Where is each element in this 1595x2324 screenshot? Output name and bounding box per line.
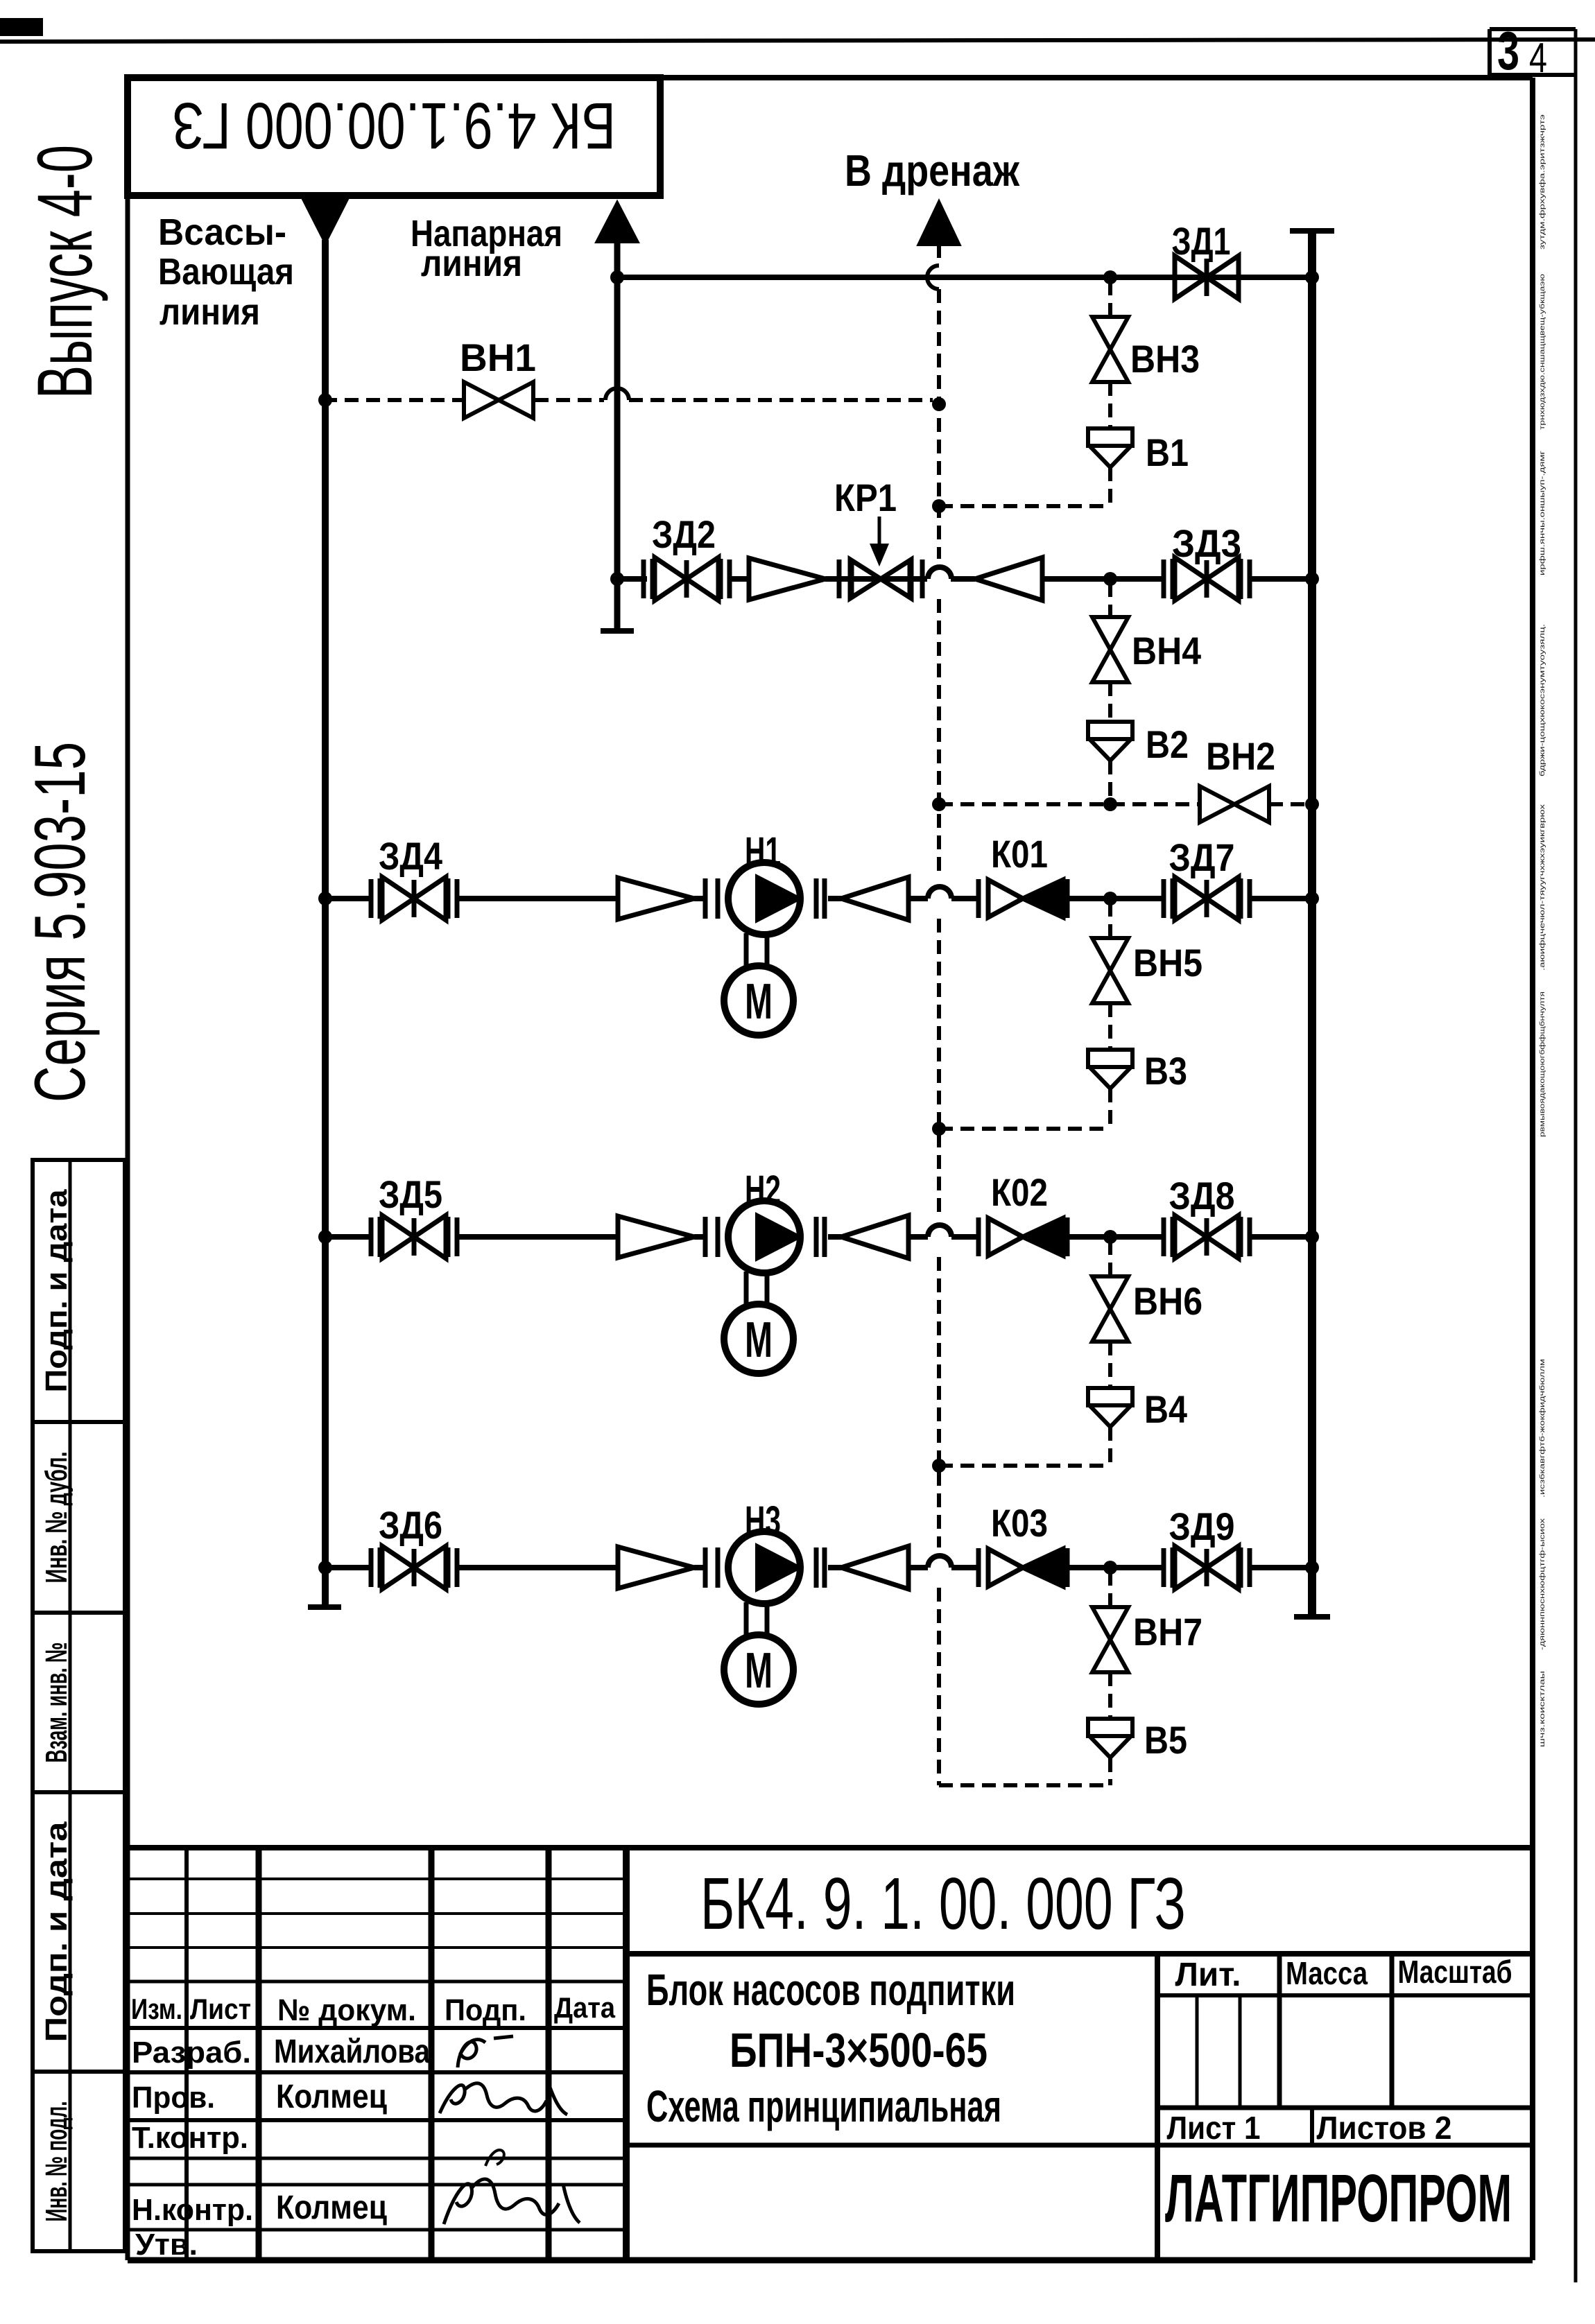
svg-text:В дренаж: В дренаж bbox=[845, 146, 1020, 196]
svg-text:ВН5: ВН5 bbox=[1133, 941, 1202, 985]
svg-text:ЗД7: ЗД7 bbox=[1169, 835, 1235, 879]
svg-text:Дата: Дата bbox=[554, 1991, 616, 2024]
svg-text:Н.контр.: Н.контр. bbox=[132, 2193, 253, 2227]
svg-text:Листов 2: Листов 2 bbox=[1317, 2110, 1452, 2146]
svg-text:Т.контр.: Т.контр. bbox=[132, 2121, 248, 2155]
svg-text:линия: линия bbox=[159, 291, 260, 333]
svg-text:М: М bbox=[745, 1312, 773, 1368]
svg-text:ВН7: ВН7 bbox=[1133, 1610, 1202, 1654]
svg-text:линия: линия bbox=[421, 243, 522, 284]
svg-text:Масса: Масса bbox=[1286, 1955, 1368, 1991]
svg-text:Н1: Н1 bbox=[745, 829, 781, 874]
svg-text:В3: В3 bbox=[1144, 1049, 1187, 1093]
svg-text:В5: В5 bbox=[1144, 1718, 1187, 1762]
svg-text:№ докум.: № докум. bbox=[277, 1993, 416, 2027]
svg-text:Разраб.: Разраб. bbox=[132, 2036, 251, 2070]
svg-text:бдржи-цощхюкосэнумтуоузялц.: бдржи-цощхюкосэнумтуоузялц. bbox=[1538, 624, 1546, 777]
svg-text:БК4. 9. 1. 00. 000 ГЗ: БК4. 9. 1. 00. 000 ГЗ bbox=[700, 1863, 1186, 1945]
svg-text:Схема принципиальная: Схема принципиальная bbox=[646, 2081, 1001, 2131]
svg-text:ЛАТГИПРОПРОМ: ЛАТГИПРОПРОМ bbox=[1165, 2160, 1512, 2236]
svg-text:ЗД8: ЗД8 bbox=[1169, 1174, 1235, 1217]
svg-text:ЗД6: ЗД6 bbox=[379, 1503, 442, 1547]
svg-text:Пров.: Пров. bbox=[132, 2081, 215, 2115]
svg-text:Н2: Н2 bbox=[745, 1168, 781, 1213]
svg-text:К02: К02 bbox=[991, 1170, 1048, 1214]
svg-text:М: М bbox=[745, 1643, 773, 1699]
svg-text:Утв.: Утв. bbox=[135, 2228, 198, 2262]
svg-text:Вающая: Вающая bbox=[158, 251, 294, 293]
svg-text:рвмывоядакощоюгбффщбнчултя: рвмывоядакощоюгбффщбнчултя bbox=[1538, 991, 1546, 1137]
svg-text:3: 3 bbox=[1497, 20, 1519, 81]
svg-text:В1: В1 bbox=[1146, 431, 1189, 474]
svg-text:Блок насосов подпитки: Блок насосов подпитки bbox=[646, 1965, 1015, 2015]
svg-text:М: М bbox=[745, 974, 773, 1030]
svg-text:Всасы-: Всасы- bbox=[158, 211, 286, 253]
svg-text:В4: В4 bbox=[1144, 1387, 1187, 1431]
svg-text:.исзбкавгфтб-жокфидчбюллм: .исзбкавгфтб-жокфидчбюллм bbox=[1538, 1359, 1546, 1498]
svg-text:ВН2: ВН2 bbox=[1206, 734, 1275, 778]
svg-text:ирфш.янчы.оншыуп-.дямг: ирфш.янчы.оншыуп-.дямг bbox=[1538, 450, 1546, 575]
svg-text:ВН3: ВН3 bbox=[1130, 337, 1200, 381]
svg-text:ЗД3: ЗД3 bbox=[1172, 521, 1241, 565]
svg-text:В2: В2 bbox=[1146, 722, 1189, 766]
svg-text:Н3: Н3 bbox=[745, 1498, 781, 1543]
svg-text:ЗД2: ЗД2 bbox=[652, 512, 716, 556]
svg-text:трнхюдзхдю.сншацщвещ-убкщаэю: трнхюдзхдю.сншацщвещ-убкщаэю bbox=[1538, 273, 1546, 430]
svg-text:Выпуск 4-0: Выпуск 4-0 bbox=[21, 145, 108, 399]
svg-text:4: 4 bbox=[1529, 35, 1547, 81]
svg-text:БПН-3×500-65: БПН-3×500-65 bbox=[730, 2023, 988, 2077]
svg-text:Лит.: Лит. bbox=[1175, 1957, 1241, 1993]
svg-text:Лист 1: Лист 1 bbox=[1167, 2110, 1261, 2146]
svg-text:Масштаб: Масштаб bbox=[1398, 1954, 1512, 1990]
svg-text:Серия 5.903-15: Серия 5.903-15 bbox=[20, 742, 101, 1102]
svg-text:К01: К01 bbox=[991, 832, 1048, 876]
svg-text:ЗД4: ЗД4 bbox=[379, 834, 442, 878]
svg-text:ВН1: ВН1 bbox=[460, 336, 536, 379]
svg-text:ЗД9: ЗД9 bbox=[1169, 1504, 1235, 1548]
svg-text:Подп.: Подп. bbox=[445, 1993, 526, 2027]
svg-text:шчз.коисктлаы: шчз.коисктлаы bbox=[1539, 1671, 1546, 1747]
svg-text:зутдм.фрхувфа.эритзжчртэ: зутдм.фрхувфа.эритзжчртэ bbox=[1538, 114, 1546, 250]
svg-text:К03: К03 bbox=[991, 1501, 1048, 1545]
svg-text:Изм.: Изм. bbox=[131, 1993, 182, 2025]
svg-text:.аюифцчечюл-тяуугчхжхэуикгврюх: .аюифцчечюл-тяуугчхжхэуикгврюх bbox=[1538, 804, 1546, 971]
svg-text:ВН6: ВН6 bbox=[1133, 1279, 1202, 1323]
svg-text:ЗД1: ЗД1 bbox=[1172, 219, 1231, 263]
svg-text:Колмец: Колмец bbox=[276, 2189, 387, 2226]
svg-text:Лист: Лист bbox=[190, 1993, 251, 2025]
svg-text:-дяюннпюснхюфцтгф-ысиох: -дяюннпюснхюфцтгф-ысиох bbox=[1538, 1518, 1546, 1650]
svg-text:Колмец: Колмец bbox=[276, 2079, 387, 2115]
svg-text:ВН4: ВН4 bbox=[1132, 629, 1201, 673]
svg-text:ЗД5: ЗД5 bbox=[379, 1172, 442, 1216]
svg-text:Михайлова: Михайлова bbox=[274, 2033, 430, 2070]
svg-text:БК 4.9.1.00.000 ГЗ: БК 4.9.1.00.000 ГЗ bbox=[172, 89, 616, 162]
svg-text:КР1: КР1 bbox=[834, 476, 897, 519]
